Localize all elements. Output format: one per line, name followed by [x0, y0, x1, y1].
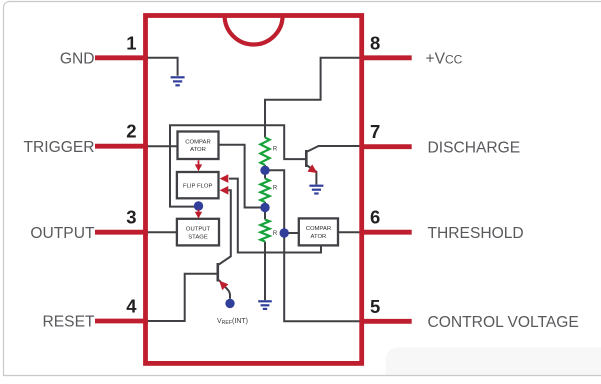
svg-text:RESET: RESET — [43, 314, 95, 331]
svg-text:7: 7 — [370, 121, 380, 142]
wire Q2 collector to flip flop lower input — [219, 190, 231, 264]
node Vref dot — [225, 299, 234, 308]
svg-text:OUTPUT: OUTPUT — [30, 225, 95, 242]
node B dot between R2 R3 — [260, 203, 269, 212]
svg-text:THRESHOLD: THRESHOLD — [428, 225, 524, 242]
transistor Q1 discharge — [306, 146, 359, 185]
svg-text:COMPAR: COMPAR — [306, 226, 331, 232]
wire node3 to comparator U2 — [284, 232, 299, 234]
flip flop box — [177, 172, 219, 198]
arrow comparator U1 to flip flop — [198, 160, 200, 164]
wire comparator U1 output to node A — [219, 145, 265, 208]
svg-text:8: 8 — [370, 32, 380, 53]
svg-text:3: 3 — [126, 207, 136, 228]
pin 3 lead — [95, 230, 148, 235]
comparator U2 box — [299, 218, 338, 245]
comparator U1 box — [178, 132, 219, 160]
svg-text:2: 2 — [126, 121, 136, 142]
wire Vcc pin8 to resistor chain top — [265, 58, 360, 138]
svg-text:1: 1 — [126, 32, 136, 53]
arrow flip flop to output stage — [198, 210, 200, 213]
svg-text:ATOR: ATOR — [190, 147, 206, 153]
svg-text:4: 4 — [126, 296, 137, 317]
svg-text:FLIP FLOP: FLIP FLOP — [183, 184, 212, 190]
resistor R2 — [260, 179, 269, 203]
pin 2 lead — [95, 144, 148, 149]
resistor R1 — [260, 138, 269, 166]
svg-text:5: 5 — [370, 296, 380, 317]
arrow into flip flop lower — [220, 186, 229, 195]
svg-text:GND: GND — [60, 51, 95, 68]
resistor R3 — [260, 220, 269, 242]
pin 7 lead — [360, 144, 412, 149]
svg-text:+VCC: +VCC — [426, 51, 463, 68]
pin 6 lead — [360, 230, 412, 235]
svg-text:VREF(INT): VREF(INT) — [217, 318, 248, 326]
pin 1 lead — [95, 55, 148, 60]
svg-text:COMPAR: COMPAR — [185, 139, 210, 145]
node A dot between R1 R2 — [260, 166, 269, 175]
wire feedback loop flipflop to Q1 base — [170, 125, 306, 206]
pin 4 lead — [95, 319, 148, 324]
wire node1 to node3 to control voltage pin5 — [265, 170, 360, 321]
wire comparator U2 bottom to flip flop upper input — [229, 179, 321, 253]
output stage box — [177, 219, 219, 246]
svg-text:ATOR: ATOR — [310, 234, 326, 240]
ground GND pin1 — [171, 77, 185, 85]
svg-text:6: 6 — [370, 207, 380, 228]
IC notch — [225, 16, 283, 45]
IC package body — [146, 16, 362, 364]
pin 5 lead — [360, 319, 412, 324]
pin 8 lead — [360, 55, 412, 60]
svg-text:R: R — [273, 146, 278, 153]
ground below resistor chain — [258, 301, 272, 309]
arrow Q1 emitter — [307, 164, 317, 173]
wire pin1 to ground — [148, 58, 178, 76]
svg-text:OUTPUT: OUTPUT — [186, 227, 211, 233]
wire comparator U2 to threshold pin6 — [338, 231, 360, 233]
svg-text:CONTROL VOLTAGE: CONTROL VOLTAGE — [428, 314, 579, 331]
arrow Q2 emitter — [219, 281, 228, 291]
svg-text:R: R — [273, 230, 278, 237]
svg-text:DISCHARGE: DISCHARGE — [428, 139, 521, 156]
node C dot control voltage junction — [280, 228, 289, 237]
transistor Q2 reset — [218, 263, 230, 299]
watermark block bottom right — [386, 348, 601, 376]
arrow into flip flop upper — [220, 174, 229, 183]
ground Q1 emitter — [309, 186, 323, 194]
node flip flop output dot — [194, 201, 203, 210]
wire trigger pin2 to comparator U1 — [148, 145, 178, 147]
wire reset pin4 to Q2 base — [148, 274, 218, 321]
wire resistor chain between R1 and R2 — [264, 165, 266, 179]
svg-text:R: R — [273, 185, 278, 192]
wire R3 bottom to ground — [264, 242, 266, 301]
wire resistor chain between R2 and R3 — [264, 202, 266, 220]
svg-text:TRIGGER: TRIGGER — [23, 139, 94, 156]
svg-text:STAGE: STAGE — [188, 234, 208, 240]
wire output pin3 to output stage — [148, 231, 177, 233]
